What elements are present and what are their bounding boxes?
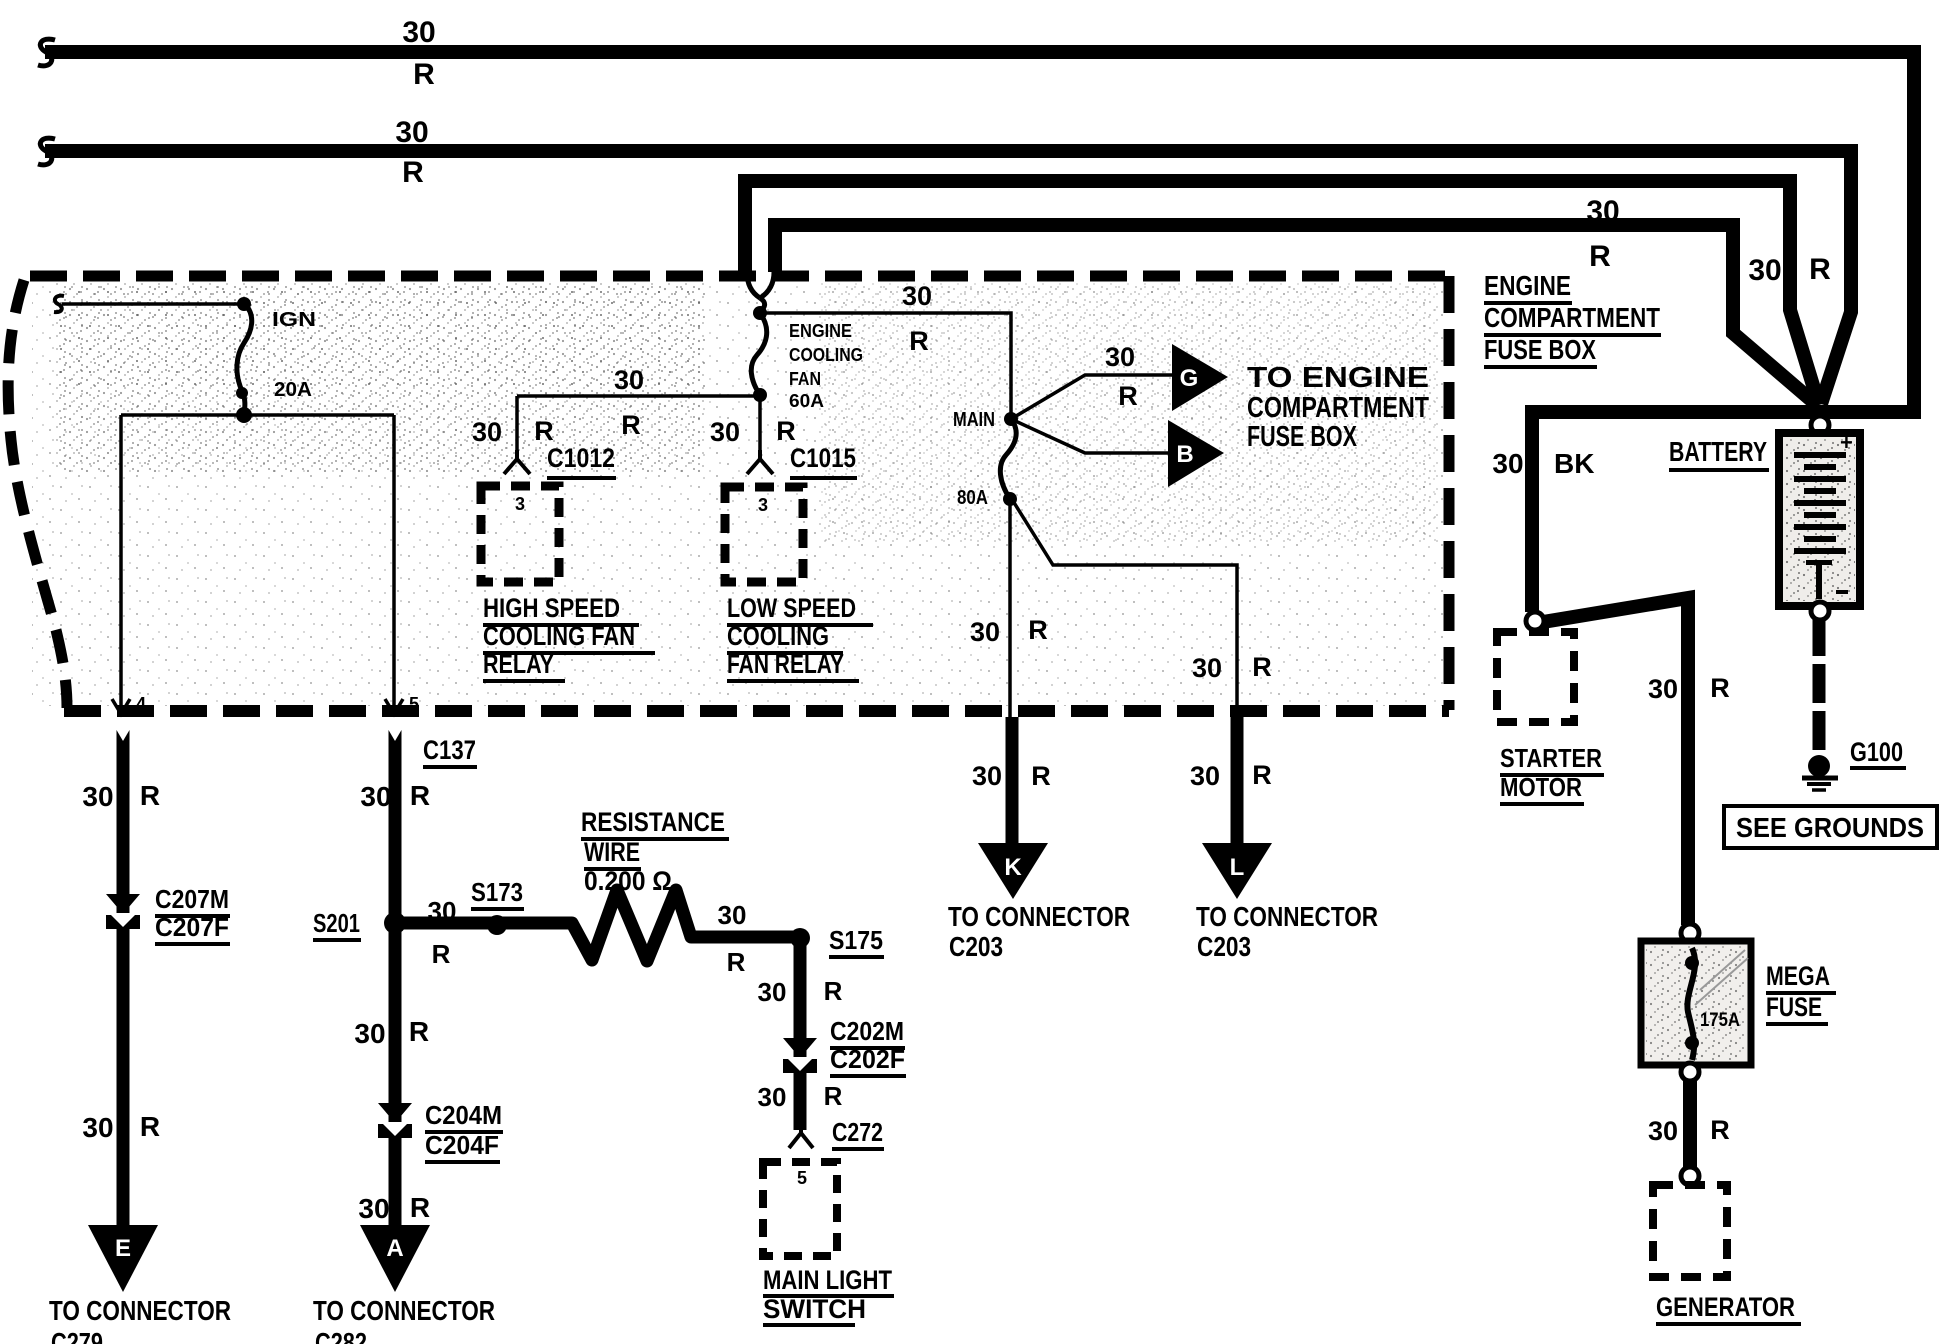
svg-text:R: R bbox=[432, 939, 451, 969]
svg-text:R: R bbox=[1252, 760, 1272, 790]
svg-text:FUSE BOX: FUSE BOX bbox=[1247, 421, 1357, 453]
svg-text:R: R bbox=[776, 416, 796, 446]
svg-text:C207M: C207M bbox=[155, 884, 229, 914]
svg-text:C282: C282 bbox=[315, 1327, 367, 1344]
svg-text:R: R bbox=[402, 156, 424, 189]
svg-text:SEE GROUNDS: SEE GROUNDS bbox=[1736, 812, 1924, 843]
svg-text:30: 30 bbox=[1648, 1116, 1678, 1146]
svg-text:RESISTANCE: RESISTANCE bbox=[581, 807, 725, 837]
svg-text:R: R bbox=[1809, 253, 1831, 286]
svg-text:HIGH SPEED: HIGH SPEED bbox=[483, 593, 620, 623]
svg-text:30: 30 bbox=[718, 900, 747, 930]
svg-text:30: 30 bbox=[1748, 254, 1781, 287]
svg-text:30: 30 bbox=[1105, 342, 1135, 372]
svg-text:20A: 20A bbox=[274, 379, 312, 401]
svg-text:30: 30 bbox=[972, 761, 1002, 791]
svg-text:C202M: C202M bbox=[830, 1016, 904, 1046]
svg-text:IGN: IGN bbox=[272, 309, 316, 331]
svg-text:30: 30 bbox=[758, 1082, 787, 1112]
svg-text:30: 30 bbox=[395, 116, 428, 149]
svg-text:R: R bbox=[1118, 381, 1138, 411]
svg-text:3: 3 bbox=[515, 494, 525, 514]
svg-text:ENGINE: ENGINE bbox=[789, 321, 852, 341]
svg-text:S201: S201 bbox=[313, 908, 360, 938]
svg-text:30: 30 bbox=[402, 16, 435, 49]
svg-text:R: R bbox=[824, 1081, 843, 1111]
svg-text:+: + bbox=[1840, 430, 1853, 455]
svg-text:C203: C203 bbox=[1197, 931, 1251, 962]
svg-text:A: A bbox=[386, 1235, 403, 1262]
svg-text:30: 30 bbox=[472, 417, 502, 447]
svg-text:COMPARTMENT: COMPARTMENT bbox=[1247, 392, 1429, 424]
svg-text:R: R bbox=[140, 780, 160, 811]
svg-text:R: R bbox=[410, 780, 430, 811]
svg-text:60A: 60A bbox=[789, 391, 824, 411]
svg-text:LOW SPEED: LOW SPEED bbox=[727, 593, 856, 623]
svg-text:MAIN: MAIN bbox=[953, 409, 995, 431]
svg-text:R: R bbox=[1031, 761, 1051, 791]
svg-text:30: 30 bbox=[354, 1018, 385, 1049]
svg-text:R: R bbox=[1252, 652, 1272, 682]
svg-text:L: L bbox=[1230, 854, 1245, 881]
svg-text:BATTERY: BATTERY bbox=[1669, 436, 1767, 467]
svg-text:30: 30 bbox=[1586, 195, 1619, 228]
svg-text:FUSE: FUSE bbox=[1766, 992, 1822, 1022]
svg-text:WIRE: WIRE bbox=[584, 837, 640, 867]
svg-text:30: 30 bbox=[358, 1193, 389, 1224]
svg-text:R: R bbox=[621, 410, 641, 440]
svg-text:R: R bbox=[1589, 240, 1611, 273]
svg-text:175A: 175A bbox=[1700, 1010, 1740, 1031]
svg-text:COMPARTMENT: COMPARTMENT bbox=[1484, 302, 1660, 333]
svg-text:S173: S173 bbox=[471, 877, 523, 907]
svg-text:30: 30 bbox=[1492, 448, 1523, 479]
svg-text:BK: BK bbox=[1554, 448, 1594, 479]
svg-text:3: 3 bbox=[758, 495, 768, 515]
svg-text:30: 30 bbox=[428, 896, 457, 926]
svg-text:TO CONNECTOR: TO CONNECTOR bbox=[49, 1295, 231, 1326]
svg-text:30: 30 bbox=[1648, 674, 1678, 704]
svg-text:R: R bbox=[409, 1016, 429, 1047]
svg-text:TO CONNECTOR: TO CONNECTOR bbox=[1196, 901, 1378, 932]
svg-text:R: R bbox=[413, 58, 435, 91]
svg-text:TO CONNECTOR: TO CONNECTOR bbox=[948, 901, 1130, 932]
svg-text:SWITCH: SWITCH bbox=[763, 1294, 866, 1324]
svg-text:R: R bbox=[1710, 1115, 1730, 1145]
svg-text:ENGINE: ENGINE bbox=[1484, 270, 1571, 301]
svg-text:MAIN LIGHT: MAIN LIGHT bbox=[763, 1265, 892, 1295]
svg-text:C203: C203 bbox=[949, 931, 1003, 962]
svg-text:R: R bbox=[727, 947, 746, 977]
svg-text:C204F: C204F bbox=[425, 1130, 499, 1160]
svg-text:C272: C272 bbox=[832, 1117, 883, 1147]
svg-text:TO ENGINE: TO ENGINE bbox=[1247, 362, 1429, 394]
svg-text:C1012: C1012 bbox=[547, 443, 615, 473]
svg-text:G: G bbox=[1180, 365, 1199, 392]
svg-text:30: 30 bbox=[902, 281, 932, 311]
svg-text:5: 5 bbox=[409, 694, 419, 714]
svg-text:FUSE BOX: FUSE BOX bbox=[1484, 334, 1596, 365]
svg-text:30: 30 bbox=[614, 365, 644, 395]
svg-text:S175: S175 bbox=[829, 925, 883, 955]
svg-text:B: B bbox=[1176, 441, 1193, 468]
svg-text:C1015: C1015 bbox=[790, 443, 856, 473]
svg-text:R: R bbox=[140, 1111, 160, 1142]
svg-text:G100: G100 bbox=[1850, 737, 1903, 767]
svg-text:30: 30 bbox=[82, 781, 113, 812]
svg-text:30: 30 bbox=[710, 417, 740, 447]
svg-text:30: 30 bbox=[758, 977, 787, 1007]
svg-text:30: 30 bbox=[1192, 653, 1222, 683]
svg-text:MEGA: MEGA bbox=[1766, 961, 1830, 991]
svg-text:FAN: FAN bbox=[789, 369, 821, 389]
svg-text:80A: 80A bbox=[957, 487, 988, 509]
svg-text:R: R bbox=[909, 326, 929, 356]
svg-text:C279: C279 bbox=[51, 1327, 103, 1344]
svg-text:GENERATOR: GENERATOR bbox=[1656, 1292, 1795, 1322]
svg-text:30: 30 bbox=[360, 781, 391, 812]
svg-text:E: E bbox=[115, 1235, 131, 1262]
svg-text:TO CONNECTOR: TO CONNECTOR bbox=[313, 1295, 495, 1326]
svg-text:R: R bbox=[824, 976, 843, 1006]
svg-text:4: 4 bbox=[136, 694, 146, 714]
svg-text:R: R bbox=[410, 1192, 430, 1223]
svg-text:R: R bbox=[534, 416, 554, 446]
svg-text:R: R bbox=[1710, 673, 1730, 703]
svg-text:STARTER: STARTER bbox=[1500, 743, 1602, 773]
svg-text:30: 30 bbox=[1190, 761, 1220, 791]
svg-text:C137: C137 bbox=[423, 735, 476, 765]
svg-text:5: 5 bbox=[797, 1168, 807, 1188]
svg-text:30: 30 bbox=[82, 1112, 113, 1143]
svg-text:30: 30 bbox=[970, 617, 1000, 647]
svg-text:K: K bbox=[1004, 854, 1022, 881]
svg-text:C204M: C204M bbox=[425, 1100, 502, 1130]
svg-text:COOLING: COOLING bbox=[789, 345, 863, 365]
svg-text:R: R bbox=[1028, 615, 1048, 645]
